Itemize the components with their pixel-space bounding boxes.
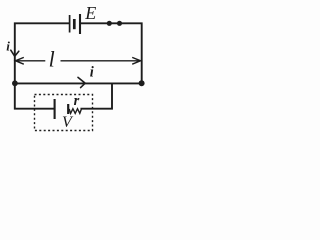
svg-text:V: V (62, 114, 74, 131)
svg-text:E: E (84, 3, 96, 23)
svg-text:i: i (6, 39, 10, 54)
svg-text:i: i (90, 64, 94, 80)
svg-text:r: r (74, 93, 80, 109)
svg-text:l: l (49, 47, 55, 72)
